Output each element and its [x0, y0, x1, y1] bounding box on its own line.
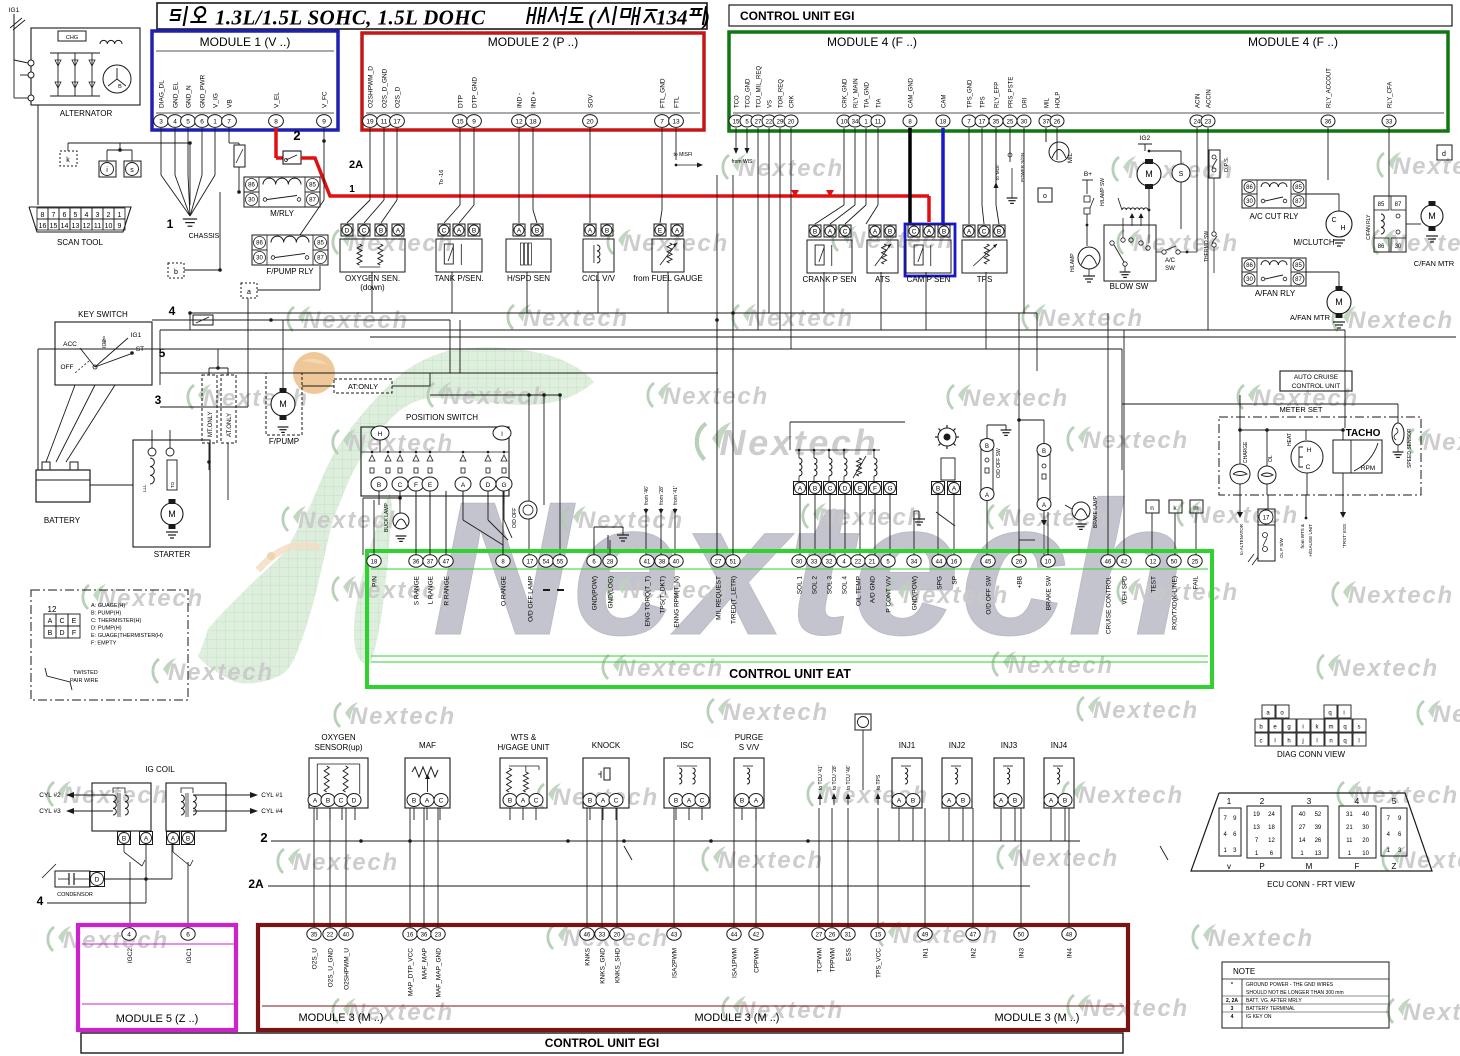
svg-text:H/GAGE UNIT: H/GAGE UNIT: [497, 743, 549, 752]
svg-text:M: M: [1335, 297, 1343, 307]
svg-text:A: A: [687, 798, 692, 805]
svg-text:B: B: [48, 630, 53, 637]
svg-text:3: 3: [155, 393, 162, 407]
svg-text:ISA1PWM: ISA1PWM: [732, 948, 739, 978]
svg-text:d: d: [1442, 151, 1446, 158]
svg-text:A: A: [985, 493, 989, 499]
svg-text:48: 48: [1066, 932, 1073, 938]
svg-text:OFF: OFF: [61, 364, 74, 371]
svg-text:31: 31: [845, 932, 852, 938]
svg-text:23: 23: [435, 932, 442, 938]
svg-text:Nextech: Nextech: [348, 430, 454, 457]
svg-text:Nextech: Nextech: [1093, 697, 1199, 724]
svg-text:85: 85: [1295, 263, 1302, 269]
svg-text:TACHO: TACHO: [1346, 428, 1381, 439]
svg-text:TPS_GND: TPS_GND: [968, 79, 974, 108]
svg-text:Nextech: Nextech: [1423, 429, 1460, 456]
svg-text:ENNG RPM(T_N): ENNG RPM(T_N): [674, 576, 681, 628]
svg-text:MODULE 4 (F ..): MODULE 4 (F ..): [1248, 35, 1338, 49]
svg-text:B: B: [588, 798, 592, 805]
svg-text:INJ3: INJ3: [1001, 741, 1018, 750]
svg-text:4: 4: [37, 894, 44, 908]
svg-text:87: 87: [1295, 277, 1302, 283]
svg-text:85: 85: [1295, 185, 1302, 191]
svg-text:1: 1: [349, 184, 355, 195]
svg-text:19: 19: [366, 118, 374, 125]
svg-text:GND(POW): GND(POW): [912, 576, 919, 610]
svg-text:h: h: [1287, 739, 1290, 745]
svg-text:B: B: [379, 227, 383, 234]
svg-text:30: 30: [1246, 199, 1253, 205]
svg-text:Nextech: Nextech: [1038, 305, 1144, 332]
svg-text:B: B: [412, 798, 416, 805]
svg-text:POSITION SWITCH: POSITION SWITCH: [406, 413, 478, 422]
svg-text:to TCU '46': to TCU '46': [846, 765, 852, 790]
svg-text:V_EL: V_EL: [274, 92, 281, 108]
svg-text:o: o: [1043, 193, 1047, 200]
svg-text:i: i: [1343, 711, 1344, 717]
svg-text:ISA2PWM: ISA2PWM: [672, 948, 679, 978]
svg-text:H/LAMP: H/LAMP: [1070, 253, 1076, 272]
svg-text:B: B: [122, 835, 126, 842]
svg-text:A: A: [144, 835, 149, 842]
svg-text:DIAG CONN VIEW: DIAG CONN VIEW: [1277, 750, 1345, 759]
svg-text:CRANK P SEN: CRANK P SEN: [802, 275, 856, 284]
svg-text:O/D OFF: O/D OFF: [512, 508, 518, 528]
svg-text:MIL: MIL: [1045, 97, 1051, 108]
svg-text:Nextech: Nextech: [348, 577, 454, 604]
svg-text:O2S_U_GND: O2S_U_GND: [328, 948, 335, 988]
svg-text:3: 3: [1231, 1006, 1234, 1012]
svg-text:m: m: [1193, 505, 1198, 512]
svg-text:B: B: [605, 227, 609, 234]
svg-text:A: A: [461, 482, 466, 489]
svg-text:49: 49: [922, 932, 929, 938]
svg-text:ACIN: ACIN: [1196, 94, 1202, 108]
svg-text:Nextech: Nextech: [818, 504, 924, 531]
svg-text:PRS_PSTE: PRS_PSTE: [1009, 77, 1015, 108]
svg-text:HEAT: HEAT: [1287, 433, 1293, 446]
svg-text:34: 34: [852, 119, 859, 125]
svg-text:Nextech: Nextech: [1403, 999, 1460, 1026]
svg-text:TWISTED: TWISTED: [73, 670, 98, 676]
svg-text:b: b: [174, 269, 178, 276]
svg-text:5: 5: [74, 212, 78, 219]
svg-text:S V/V: S V/V: [739, 743, 760, 752]
svg-text:C: C: [1306, 464, 1311, 471]
svg-text:MODULE 4 (F ..): MODULE 4 (F ..): [827, 35, 917, 49]
svg-text:RLY_EFP: RLY_EFP: [995, 82, 1001, 108]
svg-text:29: 29: [777, 119, 784, 125]
svg-text:CONTROL UNIT EGI: CONTROL UNIT EGI: [740, 9, 854, 23]
svg-text:18: 18: [1268, 825, 1275, 831]
svg-text:40: 40: [343, 932, 350, 938]
svg-text:GROUND POWER - THE GND WIRES: GROUND POWER - THE GND WIRES: [1246, 982, 1334, 988]
svg-text:45: 45: [985, 559, 992, 565]
svg-text:M: M: [279, 399, 287, 409]
svg-text:to TCU '28': to TCU '28': [832, 765, 838, 790]
svg-text:86: 86: [1378, 244, 1385, 250]
svg-text:l: l: [1316, 739, 1317, 745]
svg-text:A: A: [952, 485, 957, 492]
svg-text:BATTERY: BATTERY: [44, 516, 81, 525]
svg-text:Nextech: Nextech: [1333, 655, 1439, 682]
svg-text:L RANGE: L RANGE: [428, 575, 435, 604]
svg-text:B: B: [888, 228, 892, 235]
svg-text:13: 13: [1253, 825, 1260, 831]
svg-text:30: 30: [1362, 825, 1369, 831]
svg-text:RLY_MAIN: RLY_MAIN: [854, 78, 860, 108]
svg-text:IGC1: IGC1: [186, 948, 193, 964]
svg-text:'TRST' ESS: 'TRST' ESS: [1342, 524, 1347, 548]
svg-text:C: C: [362, 227, 367, 234]
svg-text:IG2: IG2: [102, 339, 108, 348]
svg-text:33: 33: [1386, 119, 1393, 125]
svg-text:IN1: IN1: [923, 948, 930, 959]
svg-text:10: 10: [1045, 559, 1052, 565]
svg-text:E: E: [658, 227, 663, 234]
svg-text:22: 22: [327, 932, 334, 938]
svg-text:10: 10: [105, 223, 113, 230]
svg-text:21: 21: [1346, 825, 1353, 831]
svg-text:TIA_GND: TIA_GND: [865, 81, 871, 108]
svg-text:C: C: [59, 618, 64, 625]
svg-text:E: E: [428, 482, 433, 489]
svg-text:LLL: LLL: [142, 484, 147, 492]
svg-text:C: C: [614, 798, 619, 805]
svg-text:15: 15: [50, 223, 58, 230]
svg-text:87: 87: [309, 198, 316, 204]
svg-text:g: g: [1287, 725, 1290, 731]
svg-text:22: 22: [766, 119, 773, 125]
svg-text:MAF_MAP: MAF_MAP: [422, 948, 429, 979]
svg-text:A: A: [754, 798, 759, 805]
svg-text:32: 32: [826, 559, 833, 565]
svg-text:s: s: [130, 167, 134, 174]
svg-text:C/FAN RLY: C/FAN RLY: [1366, 214, 1372, 240]
svg-text:NOTE: NOTE: [1233, 967, 1255, 976]
svg-text:SOV: SOV: [588, 94, 595, 108]
svg-text:SCAN TOOL: SCAN TOOL: [57, 238, 103, 247]
svg-text:13: 13: [72, 223, 80, 230]
svg-text:E: GUAGE(THERMISTER(H): E: GUAGE(THERMISTER(H): [91, 633, 163, 639]
svg-text:87: 87: [317, 256, 324, 262]
svg-text:CYL #1: CYL #1: [261, 792, 283, 799]
svg-text:STARTER: STARTER: [154, 550, 191, 559]
svg-text:MODULE 1 (V ..): MODULE 1 (V ..): [200, 35, 291, 49]
svg-text:n: n: [1150, 505, 1154, 512]
svg-text:15: 15: [456, 118, 464, 125]
svg-text:4: 4: [1355, 797, 1360, 806]
svg-text:CONTROL UNIT: CONTROL UNIT: [1292, 383, 1341, 390]
svg-text:40: 40: [673, 559, 680, 565]
svg-text:MODULE 5 (Z ..): MODULE 5 (Z ..): [116, 1013, 199, 1025]
svg-text:Nextech: Nextech: [903, 582, 1009, 609]
svg-text:V_IG: V_IG: [213, 93, 220, 108]
svg-text:54: 54: [543, 559, 550, 565]
svg-text:42: 42: [753, 932, 760, 938]
svg-text:26: 26: [1315, 838, 1322, 844]
svg-text:Nextech: Nextech: [350, 703, 456, 730]
svg-text:26: 26: [1016, 559, 1023, 565]
svg-text:17: 17: [393, 118, 401, 125]
svg-text:B: B: [326, 798, 330, 805]
svg-text:18: 18: [371, 559, 378, 565]
svg-text:CRK: CRK: [790, 95, 796, 108]
svg-text:12: 12: [83, 223, 91, 230]
svg-text:Nextech: Nextech: [1348, 307, 1454, 334]
svg-text:M/CLUTCH: M/CLUTCH: [1293, 238, 1335, 247]
svg-text:C: C: [534, 798, 539, 805]
svg-text:8: 8: [41, 212, 45, 219]
svg-text:16: 16: [407, 932, 414, 938]
svg-text:30: 30: [256, 256, 263, 262]
svg-text:C: C: [439, 798, 444, 805]
svg-text:34: 34: [911, 559, 918, 565]
svg-text:B: B: [961, 798, 965, 805]
svg-text:F: F: [414, 482, 418, 489]
svg-text:B: B: [1042, 449, 1046, 455]
svg-text:KNKS_GND: KNKS_GND: [600, 948, 607, 984]
svg-text:ALTERNATOR: ALTERNATOR: [60, 109, 113, 118]
svg-text:A: A: [457, 227, 462, 234]
svg-text:18: 18: [529, 118, 537, 125]
svg-text:ATS: ATS: [875, 275, 890, 284]
svg-text:THERMO SW: THERMO SW: [1204, 231, 1210, 262]
svg-text:27: 27: [816, 932, 823, 938]
svg-text:from WIS: from WIS: [732, 159, 753, 165]
svg-text:9: 9: [322, 118, 326, 125]
svg-text:A: A: [1042, 503, 1046, 509]
svg-text:134: 134: [656, 6, 688, 30]
svg-text:B+: B+: [1084, 171, 1092, 178]
svg-text:4: 4: [127, 931, 131, 938]
svg-text:DTP_GND: DTP_GND: [472, 77, 479, 108]
svg-text:A: A: [1049, 798, 1054, 805]
svg-text:ECU CONN - FRT VIEW: ECU CONN - FRT VIEW: [1267, 880, 1355, 889]
svg-text:IG COIL: IG COIL: [145, 765, 175, 774]
svg-text:To -16: To -16: [439, 170, 445, 185]
svg-text:Nextech: Nextech: [748, 305, 854, 332]
svg-text:PAIR WIRE: PAIR WIRE: [70, 678, 99, 684]
svg-text:A: GUAGE(H): A: GUAGE(H): [91, 603, 125, 609]
svg-text:IGC2: IGC2: [127, 948, 134, 964]
svg-text:q: q: [1343, 739, 1346, 745]
svg-text:3: 3: [96, 212, 100, 219]
svg-text:TPS(T_DKT): TPS(T_DKT): [660, 576, 667, 614]
svg-text:55: 55: [557, 559, 564, 565]
svg-text:A: A: [873, 228, 878, 235]
svg-text:TCO: TCO: [735, 95, 741, 108]
svg-text:A: A: [48, 618, 53, 625]
svg-text:36: 36: [421, 932, 428, 938]
svg-text:AUTO CRUISE: AUTO CRUISE: [1294, 374, 1339, 381]
svg-text:50: 50: [1018, 932, 1025, 938]
svg-text:SOL 4: SOL 4: [842, 576, 849, 595]
svg-text:*: *: [1231, 982, 1233, 988]
svg-text:HOLP: HOLP: [1056, 92, 1062, 108]
svg-text:TCU_MIL_REQ: TCU_MIL_REQ: [757, 66, 763, 108]
svg-text:SOL 3: SOL 3: [827, 576, 834, 595]
svg-text:D: D: [352, 798, 357, 805]
svg-text:OXYGEN: OXYGEN: [321, 733, 355, 742]
svg-text:Nextech: Nextech: [1433, 701, 1460, 728]
svg-text:CHASSIS: CHASSIS: [189, 233, 220, 240]
svg-text:A/FAN MTR: A/FAN MTR: [1290, 313, 1331, 322]
svg-text:31: 31: [1346, 812, 1353, 818]
svg-text:SOL 1: SOL 1: [797, 576, 804, 595]
svg-text:C: C: [1331, 217, 1336, 224]
svg-text:15: 15: [875, 932, 882, 938]
svg-text:C/CL V/V: C/CL V/V: [582, 274, 616, 283]
svg-text:28: 28: [607, 559, 614, 565]
svg-text:D: D: [345, 227, 350, 234]
svg-text:SENSOR(up): SENSOR(up): [314, 743, 362, 752]
svg-text:20: 20: [614, 932, 621, 938]
svg-text:AT.ONLY: AT.ONLY: [227, 413, 233, 437]
svg-text:37: 37: [427, 559, 434, 565]
svg-text:Nextech: Nextech: [618, 655, 724, 682]
svg-text:C: C: [700, 798, 705, 805]
svg-text:RXD/TXD(K-LINE): RXD/TXD(K-LINE): [1172, 576, 1179, 630]
svg-text:Nextech: Nextech: [168, 659, 274, 686]
svg-text:H: H: [1307, 447, 1312, 454]
svg-text:l: l: [1358, 739, 1359, 745]
svg-text:A: A: [999, 798, 1004, 805]
svg-text:B: B: [535, 227, 539, 234]
svg-text:to TCU '41': to TCU '41': [818, 765, 824, 790]
svg-text:B: B: [1013, 798, 1017, 805]
svg-text:46: 46: [584, 932, 591, 938]
svg-text:A: A: [517, 227, 522, 234]
svg-text:F/PUMP RLY: F/PUMP RLY: [266, 267, 314, 276]
svg-text:11: 11: [875, 119, 882, 125]
svg-text:7: 7: [660, 118, 664, 125]
svg-text:INJ1: INJ1: [899, 741, 916, 750]
svg-text:IG KEY ON: IG KEY ON: [1246, 1014, 1272, 1020]
svg-text:INJ2: INJ2: [949, 741, 966, 750]
svg-text:86: 86: [248, 183, 255, 189]
svg-text:BATT. VG. AFTER MRLY: BATT. VG. AFTER MRLY: [1246, 998, 1302, 1004]
svg-text:4: 4: [1231, 1014, 1234, 1020]
svg-text:46: 46: [1105, 559, 1112, 565]
svg-text:Nextech: Nextech: [1078, 782, 1184, 809]
svg-text:10: 10: [1362, 851, 1369, 857]
svg-text:85: 85: [1378, 202, 1385, 208]
svg-text:TCPWM: TCPWM: [817, 948, 824, 973]
svg-text:O RANGE: O RANGE: [501, 575, 508, 606]
svg-text:6: 6: [186, 931, 190, 938]
svg-text:M: M: [168, 509, 176, 519]
svg-text:20: 20: [788, 119, 795, 125]
svg-text:C: C: [912, 228, 917, 235]
svg-text:30: 30: [1246, 277, 1253, 283]
svg-text:4: 4: [85, 212, 89, 219]
svg-text:2: 2: [293, 128, 300, 143]
svg-text:BRAKE LAMP: BRAKE LAMP: [1093, 495, 1099, 528]
svg-text:B: B: [985, 444, 989, 450]
svg-text:B: B: [997, 228, 1001, 235]
svg-text:n: n: [1329, 739, 1332, 745]
svg-text:KEY SWITCH: KEY SWITCH: [78, 310, 128, 319]
svg-text:S RANGE: S RANGE: [414, 575, 421, 605]
svg-text:44: 44: [731, 932, 738, 938]
svg-text:Nextech: Nextech: [1133, 579, 1239, 606]
svg-text:from '28': from '28': [659, 486, 665, 505]
svg-text:F: F: [873, 485, 877, 492]
svg-text:12: 12: [1268, 838, 1275, 844]
svg-text:M/RLY: M/RLY: [270, 209, 295, 218]
svg-text:85: 85: [317, 241, 324, 247]
svg-text:B: B: [1063, 798, 1067, 805]
svg-text:ESS: ESS: [846, 947, 853, 961]
svg-text:M: M: [1145, 169, 1153, 179]
svg-text:to ALTENATOR: to ALTENATOR: [1239, 523, 1244, 555]
svg-text:A: A: [675, 227, 680, 234]
svg-text:IN2: IN2: [971, 948, 978, 959]
svg-text:from WTS &: from WTS &: [1300, 524, 1305, 549]
svg-text:B: B: [186, 835, 190, 842]
svg-text:C: C: [982, 228, 987, 235]
svg-text:35: 35: [993, 119, 1000, 125]
svg-text:m: m: [1329, 725, 1334, 731]
svg-text:TPPWM: TPPWM: [830, 948, 837, 972]
svg-text:TIA: TIA: [877, 99, 883, 108]
svg-text:+BB: +BB: [1017, 576, 1024, 588]
svg-text:A: A: [601, 798, 606, 805]
svg-text:30: 30: [1021, 119, 1028, 125]
svg-text:D.P.S.: D.P.S.: [1224, 156, 1230, 172]
svg-text:to TPS: to TPS: [876, 774, 882, 790]
svg-text:OIL TEMP: OIL TEMP: [856, 576, 863, 606]
svg-text:SOL 2: SOL 2: [812, 576, 819, 595]
svg-text:ACC: ACC: [63, 341, 77, 348]
svg-text:G: G: [887, 485, 892, 492]
svg-text:39: 39: [1315, 825, 1322, 831]
svg-text:CRUISE CONTROL: CRUISE CONTROL: [1106, 576, 1113, 635]
svg-text:IG1: IG1: [9, 7, 20, 14]
svg-text:20: 20: [586, 118, 594, 125]
svg-text:A: A: [927, 228, 932, 235]
svg-text:INJ4: INJ4: [1051, 741, 1068, 750]
svg-text:H/SPD SEN: H/SPD SEN: [507, 274, 550, 283]
svg-text:O2S_D: O2S_D: [395, 86, 402, 108]
svg-text:B: B: [508, 798, 512, 805]
svg-text:OL P S/W: OL P S/W: [1279, 537, 1284, 558]
svg-text:51: 51: [730, 559, 737, 565]
svg-text:Nextech: Nextech: [523, 305, 629, 332]
svg-text:C: C: [442, 227, 447, 234]
svg-text:7: 7: [227, 118, 231, 125]
svg-text:44: 44: [936, 559, 943, 565]
svg-text:B: B: [674, 798, 678, 805]
svg-text:F/PUMP: F/PUMP: [269, 437, 299, 446]
svg-text:D: D: [59, 630, 64, 637]
svg-text:OXYGEN SEN.: OXYGEN SEN.: [345, 274, 400, 283]
svg-text:V_FC: V_FC: [322, 91, 329, 108]
svg-text:DIAG_DL: DIAG_DL: [159, 80, 166, 108]
svg-text:IN3: IN3: [1019, 948, 1026, 959]
svg-text:17: 17: [979, 119, 986, 125]
svg-text:O2S_U: O2S_U: [312, 948, 319, 970]
svg-text:q: q: [1328, 711, 1331, 717]
svg-text:VS: VS: [768, 100, 774, 108]
svg-text:P: P: [1259, 862, 1264, 871]
svg-text:VB: VB: [227, 99, 234, 108]
svg-text:A: A: [521, 798, 526, 805]
svg-text:38: 38: [659, 559, 666, 565]
svg-text:CHARGE: CHARGE: [1243, 441, 1249, 463]
